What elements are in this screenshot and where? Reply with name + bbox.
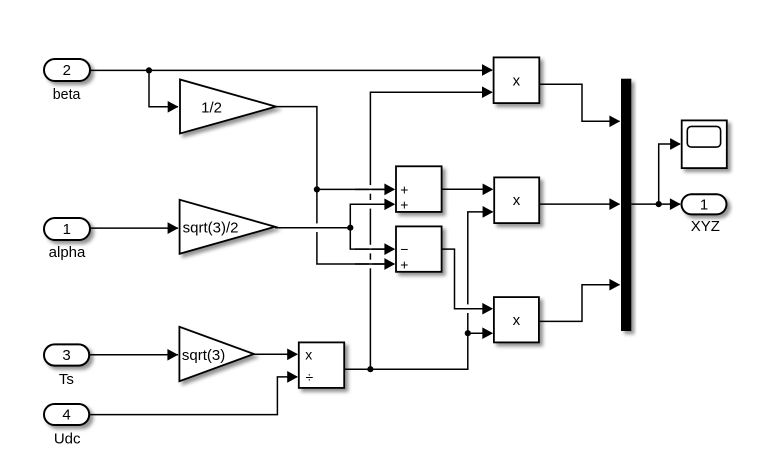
svg-text:+: + <box>400 257 408 273</box>
svg-text:4: 4 <box>62 407 70 424</box>
svg-text:+: + <box>400 181 408 197</box>
svg-text:Ts: Ts <box>59 371 74 388</box>
svg-text:beta: beta <box>53 86 81 103</box>
svg-text:3: 3 <box>62 347 70 364</box>
svg-text:−: − <box>400 241 408 257</box>
svg-text:x: x <box>305 346 312 362</box>
svg-text:1/2: 1/2 <box>201 99 222 116</box>
svg-text:1: 1 <box>700 196 708 213</box>
svg-text:2: 2 <box>63 62 71 79</box>
svg-text:+: + <box>400 197 408 213</box>
svg-text:sqrt(3): sqrt(3) <box>182 347 225 364</box>
svg-text:XYZ: XYZ <box>691 218 720 235</box>
svg-text:alpha: alpha <box>49 244 86 261</box>
svg-text:sqrt(3)/2: sqrt(3)/2 <box>183 219 239 236</box>
svg-text:x: x <box>513 192 521 209</box>
svg-text:÷: ÷ <box>305 369 313 385</box>
svg-text:x: x <box>513 312 521 329</box>
svg-text:1: 1 <box>63 221 71 238</box>
svg-text:x: x <box>513 72 521 89</box>
svg-text:Udc: Udc <box>54 431 81 448</box>
